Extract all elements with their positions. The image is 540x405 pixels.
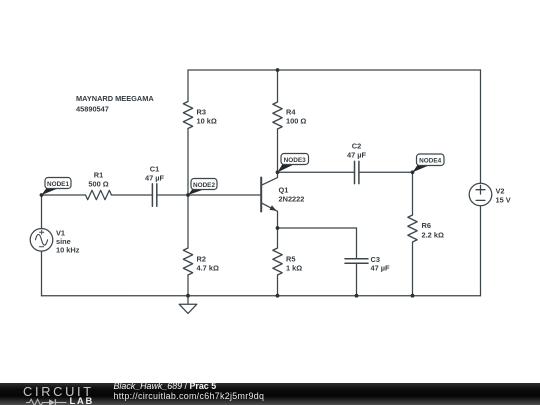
circuitlab logo bbox=[23, 386, 94, 398]
junction dot R6 bottom bbox=[411, 294, 415, 298]
wire R4 to collector node NODE3 bbox=[277, 129, 279, 172]
junction dot R5 bottom bbox=[276, 294, 280, 298]
svg-text:R4: R4 bbox=[286, 108, 296, 117]
junction node dot NODE4 bbox=[411, 170, 415, 174]
svg-text:V2: V2 bbox=[496, 187, 505, 196]
wire NODE2 to R2 bbox=[187, 195, 189, 248]
V2 plus mark bbox=[476, 185, 485, 194]
transistor Q1 emitter lead bbox=[261, 203, 277, 228]
node tag NODE2 bbox=[188, 179, 217, 196]
svg-text:NODE4: NODE4 bbox=[419, 158, 441, 165]
transistor Q1 emitter arrow bbox=[269, 205, 276, 211]
wire R5 to bottom rail bbox=[277, 275, 279, 296]
junction dot top rail / R4 bbox=[276, 68, 280, 72]
wire R3 to NODE2 bbox=[187, 129, 189, 196]
wire R4 lead from top rail bbox=[277, 70, 279, 102]
transistor Q1 collector lead bbox=[261, 172, 277, 185]
capacitor C1 bbox=[152, 184, 156, 206]
svg-text:C1: C1 bbox=[150, 165, 159, 174]
svg-text:47 µF: 47 µF bbox=[145, 174, 165, 183]
wire R2 to ground rail bbox=[187, 275, 189, 296]
logo resistor-diode symbol bbox=[26, 398, 68, 405]
svg-text:500 Ω: 500 Ω bbox=[88, 180, 108, 189]
svg-text:4.7 kΩ: 4.7 kΩ bbox=[197, 264, 219, 273]
svg-text:10 kΩ: 10 kΩ bbox=[197, 117, 217, 126]
junction dot ground bbox=[186, 294, 190, 298]
node tag NODE1 bbox=[42, 178, 72, 196]
resistor R6 bbox=[408, 215, 417, 242]
node tag NODE3 bbox=[278, 154, 309, 173]
wire R1 to C1 bbox=[112, 194, 153, 196]
svg-text:C2: C2 bbox=[352, 142, 361, 151]
wire right rail: top rail down to V2 bbox=[480, 70, 482, 183]
footer bar bbox=[0, 383, 540, 405]
junction dot emitter branch bbox=[276, 226, 280, 230]
svg-text:47 µF: 47 µF bbox=[347, 151, 367, 160]
wire C1 to NODE2 and transistor base bbox=[157, 194, 261, 196]
V2 minus mark bbox=[476, 199, 485, 201]
svg-text:MAYNARD MEEGAMA: MAYNARD MEEGAMA bbox=[76, 94, 154, 103]
svg-text:NODE1: NODE1 bbox=[47, 181, 69, 188]
wire C3 top lead bbox=[356, 228, 358, 259]
wire top rail from R3 column to V2 column bbox=[188, 69, 481, 71]
svg-text:NODE3: NODE3 bbox=[284, 157, 306, 164]
junction node dot NODE3 bbox=[276, 170, 280, 174]
node tag NODE4 bbox=[413, 154, 445, 172]
svg-text:R6: R6 bbox=[422, 221, 431, 230]
resistor R5 bbox=[273, 248, 282, 275]
svg-text:2N2222: 2N2222 bbox=[279, 195, 305, 204]
V1 plus mark bbox=[40, 230, 44, 234]
wire emitter node down to R5 bbox=[277, 228, 279, 248]
svg-text:2.2 kΩ: 2.2 kΩ bbox=[422, 231, 444, 240]
V1 sine wave bbox=[35, 234, 47, 245]
wire left rail: V1 down to bottom rail bbox=[41, 251, 43, 296]
resistor R3 bbox=[183, 102, 192, 129]
capacitor C2 bbox=[355, 161, 359, 183]
svg-text:R5: R5 bbox=[286, 255, 295, 264]
wire bottom rail bbox=[42, 295, 481, 297]
svg-text:10 kHz: 10 kHz bbox=[56, 246, 80, 255]
junction dot C3 bottom bbox=[355, 294, 359, 298]
transistor Q1 base bar bbox=[260, 178, 262, 212]
wire base row: NODE1 to R1 bbox=[42, 194, 86, 196]
svg-text:47 µF: 47 µF bbox=[371, 264, 391, 273]
V1 minus mark bbox=[39, 246, 43, 248]
wire left rail: NODE1 down to V1 bbox=[41, 195, 43, 229]
capacitor C3 bbox=[345, 259, 368, 264]
resistor R1 bbox=[86, 190, 112, 199]
resistor R4 bbox=[273, 102, 282, 129]
svg-text:R1: R1 bbox=[94, 171, 103, 180]
svg-text:100 Ω: 100 Ω bbox=[286, 117, 306, 126]
wire R6 to bottom rail bbox=[412, 242, 414, 296]
voltage source V1 circle bbox=[30, 229, 53, 252]
svg-text:Q1: Q1 bbox=[279, 186, 289, 195]
junction node dot NODE1 bbox=[40, 193, 44, 197]
svg-text:R3: R3 bbox=[197, 108, 206, 117]
wire C3 to bottom rail bbox=[356, 263, 358, 295]
svg-text:1 kΩ: 1 kΩ bbox=[286, 264, 302, 273]
svg-text:R2: R2 bbox=[197, 255, 206, 264]
junction node dot NODE2 bbox=[186, 193, 190, 197]
wire emitter branch to C3 bbox=[278, 227, 357, 229]
svg-text:45890547: 45890547 bbox=[76, 105, 109, 114]
ground bbox=[179, 296, 197, 314]
wire collector row NODE3 to C2 bbox=[278, 171, 355, 173]
wire C2 to NODE4 bbox=[359, 171, 413, 173]
wire NODE4 down to R6 bbox=[412, 172, 414, 215]
wire right rail: V2 down to bottom rail bbox=[480, 206, 482, 296]
wire R3 lead from top rail bbox=[187, 70, 189, 102]
svg-text:NODE2: NODE2 bbox=[193, 182, 215, 189]
resistor R2 bbox=[183, 248, 192, 275]
svg-text:15 V: 15 V bbox=[496, 196, 511, 205]
voltage source V2 circle bbox=[469, 183, 492, 206]
